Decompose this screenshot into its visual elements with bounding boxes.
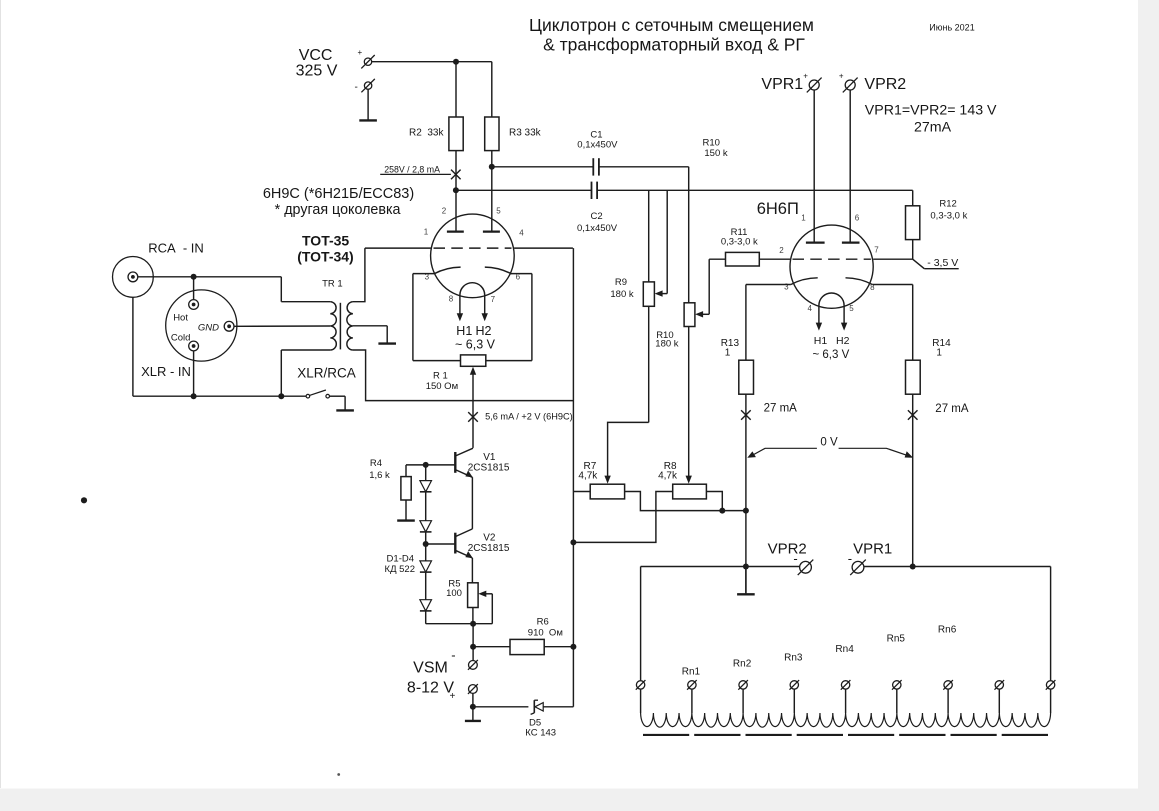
- svg-text:R3 33k: R3 33k: [509, 127, 542, 138]
- svg-text:Rn5: Rn5: [887, 634, 906, 645]
- diode D1: [420, 481, 432, 492]
- svg-text:R2 33k: R2 33k: [409, 127, 444, 138]
- svg-text:Rn6: Rn6: [938, 625, 957, 636]
- svg-text:(TOT-34): (TOT-34): [297, 248, 354, 264]
- svg-text:4,7k: 4,7k: [658, 471, 678, 482]
- svg-text:0,3-3,0 k: 0,3-3,0 k: [721, 237, 758, 248]
- wire GND pin to transformer tap: [234, 325, 330, 327]
- terminal tap 5: [892, 680, 902, 690]
- svg-text:Rn3: Rn3: [784, 653, 803, 664]
- svg-text:27mA: 27mA: [914, 119, 952, 135]
- RCA connector: [112, 257, 153, 298]
- resistor R4: [401, 477, 411, 500]
- svg-text:H2: H2: [836, 335, 850, 347]
- R1 wiper arrow from V1 collector: [470, 367, 476, 448]
- svg-text:TR 1: TR 1: [322, 279, 343, 290]
- svg-text:1,6 k: 1,6 k: [369, 470, 390, 481]
- wire R7 right to R13 node: [625, 492, 746, 511]
- transistor V1 2CS1815: [426, 448, 473, 477]
- svg-text:КД 522: КД 522: [385, 564, 415, 575]
- wire R8 left loop: [573, 492, 672, 543]
- measure point X 258V: [451, 170, 461, 180]
- wire grid right to R12 node: [873, 258, 913, 260]
- wire grid left to transformer: [365, 247, 431, 249]
- svg-text:Cold: Cold: [171, 332, 191, 343]
- potentiometer R9 180k: [643, 282, 654, 306]
- U1 heater hump: [460, 283, 485, 297]
- wire hot pin up: [193, 277, 195, 300]
- svg-text:2CS1815: 2CS1815: [468, 543, 510, 554]
- wire R8 right down: [706, 492, 722, 511]
- R10 wiper arrow: [695, 259, 709, 317]
- terminal tap 3: [789, 680, 799, 690]
- junction R13/bus: [743, 508, 749, 514]
- R9 wiper arrow: [655, 190, 668, 296]
- wire to R6: [473, 646, 510, 648]
- potentiometer R7: [590, 484, 624, 499]
- terminal VCC-: [361, 79, 374, 92]
- wire R7 left: [573, 491, 590, 493]
- svg-text:& трансформаторный вход & РГ: & трансформаторный вход & РГ: [543, 35, 805, 55]
- svg-text:1: 1: [424, 228, 429, 237]
- wire primary bottom terminal: [281, 349, 330, 351]
- svg-text:TOT-35: TOT-35: [302, 233, 349, 249]
- wire R6 right: [544, 646, 573, 648]
- svg-text:VSM: VSM: [413, 659, 448, 676]
- junction R6/vertical: [570, 644, 576, 650]
- svg-text:8: 8: [449, 295, 454, 304]
- terminal tap 2: [738, 680, 748, 690]
- transistor V2 2CS1815: [426, 529, 473, 558]
- R7 wiper arrow: [604, 476, 610, 484]
- measure point X R13: [741, 410, 751, 420]
- svg-text:Hot: Hot: [173, 312, 188, 323]
- wire R2 to anode pin2: [455, 151, 457, 232]
- transformer TR1 core: [339, 303, 341, 350]
- svg-text:Июнь 2021: Июнь 2021: [929, 23, 974, 33]
- R5 wiper arrow: [478, 591, 492, 624]
- svg-text:XLR/RCA: XLR/RCA: [297, 366, 356, 381]
- wire R14 bottom to VPR1 rail: [912, 394, 914, 566]
- terminal tap 4: [841, 680, 851, 690]
- ground secondary center: [378, 326, 396, 344]
- 0V arrow left: [747, 448, 817, 458]
- wire secondary bottom to cathode node: [353, 350, 574, 401]
- svg-text:R9: R9: [615, 277, 627, 288]
- svg-text:5: 5: [849, 304, 854, 313]
- svg-text:100: 100: [446, 588, 462, 599]
- wire tap 2 to coil: [742, 689, 744, 713]
- svg-text:- 3,5 V: - 3,5 V: [927, 257, 958, 269]
- XLR pin Hot: [189, 300, 199, 310]
- svg-text:XLR - IN: XLR - IN: [141, 364, 191, 379]
- measure point X 5.6mA: [468, 412, 478, 422]
- XLR pin Cold: [189, 341, 199, 351]
- wire R4 top link: [406, 464, 426, 466]
- svg-text:-: -: [848, 551, 852, 566]
- svg-text:RCA - IN: RCA - IN: [148, 240, 204, 255]
- ground at VCC-: [359, 89, 377, 120]
- U1 anode plates: [447, 231, 464, 233]
- wire VPR1 rail: [864, 566, 1051, 568]
- svg-text:Rn2: Rn2: [733, 659, 752, 670]
- terminal VCC+: [361, 55, 374, 68]
- svg-text:258V / 2,8 mA: 258V / 2,8 mA: [384, 164, 440, 174]
- U2 heater hump: [819, 293, 844, 308]
- svg-text:7: 7: [491, 295, 496, 304]
- svg-text:GND: GND: [198, 322, 219, 333]
- wire RCA shield down: [132, 297, 134, 396]
- wire R13 bottom: [745, 394, 747, 510]
- junction RCA/XLR hot: [191, 274, 197, 280]
- svg-text:5,6 mA / +2 V (6Н9С): 5,6 mA / +2 V (6Н9С): [485, 412, 573, 422]
- 0V arrow right: [839, 448, 914, 458]
- svg-text:180 k: 180 k: [655, 338, 678, 349]
- wire C2 line down to R12: [912, 190, 914, 206]
- wire primary bottom to bus: [280, 350, 282, 396]
- wire bottom bus V-section: [426, 623, 493, 625]
- svg-text:325 V: 325 V: [296, 63, 338, 80]
- junction V1 base: [423, 462, 429, 468]
- svg-text:Rn1: Rn1: [682, 667, 701, 678]
- resistor R6: [510, 639, 544, 654]
- terminal tap 8: [1046, 680, 1056, 690]
- U2 heater leads with arrows (pins 4,5): [816, 308, 848, 331]
- terminal VPR1: [807, 78, 822, 93]
- tube U1 6N9S envelope: [431, 214, 515, 298]
- svg-text:0,1x450V: 0,1x450V: [577, 223, 618, 234]
- resistor R12: [906, 206, 920, 240]
- terminal tap 0: [636, 680, 646, 690]
- resistor R1: [461, 355, 486, 366]
- wire V1 emitter to V2 collector: [471, 477, 473, 529]
- period mark bottom: [337, 773, 340, 776]
- svg-text:+: +: [358, 48, 363, 57]
- attenuator core bars: [643, 734, 689, 736]
- svg-text:5: 5: [496, 207, 501, 216]
- junction VCC/R2: [453, 59, 459, 65]
- wire diode chain: [425, 465, 427, 624]
- U2 grid (dashed): [793, 258, 871, 260]
- wire primary top terminal: [281, 301, 330, 303]
- svg-text:6: 6: [855, 214, 860, 223]
- svg-text:180 k: 180 k: [610, 289, 633, 300]
- wire tap 6 to coil: [947, 689, 949, 713]
- U1 cathode arcs: [434, 267, 461, 274]
- svg-text:4,7k: 4,7k: [578, 471, 598, 482]
- svg-text:R6: R6: [537, 617, 549, 628]
- svg-text:6Н9С (*6Н21Б/ECC83): 6Н9С (*6Н21Б/ECC83): [263, 186, 414, 202]
- wire tap8 to coil: [1050, 689, 1052, 713]
- capacitor C1: [492, 158, 689, 175]
- svg-text:27 mA: 27 mA: [935, 403, 969, 415]
- junction V2 base: [423, 541, 429, 547]
- wire tap0 to coil: [640, 689, 642, 713]
- svg-text:0,3-3,0 k: 0,3-3,0 k: [930, 210, 967, 221]
- measure point X R14: [908, 410, 918, 420]
- wire R10 bottom to R8 wiper: [688, 327, 690, 478]
- wire grid right: [514, 247, 573, 249]
- wire VCC to R3: [491, 62, 493, 117]
- svg-text:2: 2: [442, 207, 447, 216]
- wire VPR1 to anode pin1: [813, 90, 815, 243]
- wire cold pin down: [193, 351, 195, 396]
- wire RCA to primary top: [280, 277, 282, 302]
- svg-text:R10: R10: [703, 137, 720, 148]
- wire R3 to anode pin5: [491, 151, 493, 232]
- ground at VSM+: [465, 707, 481, 721]
- svg-text:-: -: [793, 551, 797, 566]
- junction anode/C2: [453, 187, 459, 193]
- transformer TR1 primary winding: [330, 302, 336, 350]
- wire secondary center tap: [353, 325, 387, 327]
- U2 anode plates: [806, 242, 825, 244]
- wire R4 top: [405, 465, 407, 477]
- heater supply box (U1): [413, 274, 532, 361]
- U2 cathode arcs: [791, 278, 818, 285]
- underline 258V: [380, 173, 451, 175]
- svg-text:VPR2: VPR2: [768, 540, 807, 557]
- wire R5 bottom: [472, 608, 474, 624]
- svg-text:1: 1: [725, 347, 731, 358]
- wire C1 out down (R10 150k line): [688, 167, 690, 303]
- svg-text:Циклотрон с сеточным смещением: Циклотрон с сеточным смещением: [529, 15, 814, 35]
- svg-text:4: 4: [807, 304, 812, 313]
- wire attenuator left end down: [640, 567, 642, 681]
- svg-text:VPR1=VPR2= 143 V: VPR1=VPR2= 143 V: [865, 102, 997, 118]
- svg-text:910 Ом: 910 Ом: [528, 627, 563, 638]
- bullet mark left margin: [81, 497, 87, 503]
- resistor R11: [726, 252, 760, 266]
- XLR connector body: [166, 290, 237, 361]
- wire V2 emitter to R5: [471, 558, 473, 583]
- wire secondary top to grid: [353, 248, 365, 302]
- svg-text:4: 4: [519, 229, 524, 238]
- svg-text:2: 2: [779, 246, 784, 255]
- terminal tap 1: [687, 680, 697, 690]
- resistor R2: [449, 117, 463, 151]
- capacitor C2: [456, 182, 913, 199]
- svg-text:R 1: R 1: [433, 371, 448, 382]
- junction bus/cold: [191, 393, 197, 399]
- resistor R3: [485, 117, 499, 151]
- wire R12 bottom to grid node: [912, 240, 914, 260]
- svg-text:VPR1: VPR1: [853, 540, 892, 557]
- terminal VPR1 bottom: [850, 560, 866, 576]
- resistor R14: [906, 360, 921, 394]
- wire tap 1 to coil: [691, 689, 693, 713]
- svg-text:КС 143: КС 143: [525, 727, 556, 738]
- wire tap 5 to coil: [896, 689, 898, 713]
- svg-text:2CS1815: 2CS1815: [468, 462, 510, 473]
- svg-text:+: +: [450, 691, 456, 702]
- wire pin8 to R14: [872, 284, 912, 286]
- ground at VPR rail: [737, 567, 755, 595]
- svg-text:R4: R4: [370, 458, 382, 469]
- wire C2 line to R9: [648, 190, 650, 282]
- svg-text:+: +: [803, 72, 808, 81]
- diode D2: [420, 521, 432, 532]
- svg-text:H2: H2: [476, 324, 492, 338]
- svg-text:0 V: 0 V: [820, 436, 838, 448]
- R8 wiper arrow: [686, 476, 692, 484]
- transformer TR1 secondary winding: [347, 302, 353, 350]
- wire RCA hot: [138, 276, 281, 278]
- junction R8/bus: [719, 508, 725, 514]
- terminal VSM-: [468, 660, 478, 670]
- svg-text:VPR2: VPR2: [864, 76, 906, 93]
- svg-text:-: -: [451, 647, 455, 662]
- wire D5 cathode to vertical: [543, 706, 573, 708]
- wire cathode node vertical: [572, 248, 574, 542]
- svg-text:8-12 V: 8-12 V: [407, 679, 454, 696]
- svg-text:0,1x450V: 0,1x450V: [577, 140, 618, 151]
- wire to D5 anode: [473, 706, 529, 708]
- svg-text:V2: V2: [483, 533, 496, 544]
- ground at R4: [397, 500, 415, 521]
- wire vertical to D5 corner: [572, 542, 574, 706]
- ground bus wire: [133, 395, 307, 397]
- terminal tap 6: [943, 680, 953, 690]
- junction R5/bus: [470, 621, 476, 627]
- svg-text:1: 1: [936, 347, 942, 358]
- wire R9 bottom down: [648, 306, 650, 422]
- junction anode/C1: [489, 164, 495, 170]
- junction rail/R14: [910, 564, 916, 570]
- U1 heater leads with arrows (pins 8,7): [457, 297, 488, 322]
- svg-text:C2: C2: [591, 211, 603, 222]
- svg-text:Rn4: Rn4: [835, 644, 854, 655]
- ground at switch: [336, 396, 354, 410]
- potentiometer R5: [468, 583, 479, 608]
- wire VPR2 to anode pin6: [849, 90, 851, 243]
- svg-text:V1: V1: [483, 452, 496, 463]
- svg-text:+: +: [839, 72, 844, 81]
- junction R8 loop/vertical: [570, 539, 576, 545]
- potentiometer R8: [673, 484, 707, 499]
- terminal VSM+: [468, 684, 478, 694]
- junction VSM-/R6: [470, 644, 476, 650]
- junction rail/R13 line: [743, 564, 749, 570]
- svg-text:7: 7: [874, 246, 879, 255]
- wire R11 to grid pin2: [759, 258, 790, 260]
- diode D3: [420, 561, 432, 572]
- wire R13 to ground: [745, 511, 747, 593]
- U1 grid (dashed): [434, 247, 512, 249]
- svg-text:VPR1: VPR1: [761, 76, 803, 93]
- wire VCC to R2: [455, 62, 457, 117]
- svg-text:150 k: 150 k: [704, 148, 727, 159]
- svg-text:~ 6,3 V: ~ 6,3 V: [813, 349, 850, 361]
- -3,5V tail: [913, 259, 959, 269]
- wire R9 to R7 wiper: [608, 422, 649, 477]
- wire R14 top: [912, 285, 914, 361]
- wire tap 4 to coil: [845, 689, 847, 713]
- wire R13 top: [745, 285, 747, 361]
- wire tap 7 to coil: [998, 689, 1000, 713]
- wire to R6 node: [472, 624, 474, 647]
- wire R10 wiper to R11: [709, 258, 725, 260]
- svg-text:R12: R12: [939, 199, 956, 210]
- svg-text:H1: H1: [456, 324, 472, 338]
- junction VSM+/D5: [470, 704, 476, 710]
- tube U2 6N6P envelope: [790, 225, 873, 308]
- wire tap 3 to coil: [793, 689, 795, 713]
- resistor R13: [739, 360, 754, 394]
- diode D4: [420, 600, 432, 611]
- svg-text:VCC: VCC: [299, 47, 333, 64]
- zener diode D5 KC143: [531, 700, 544, 714]
- svg-text:1: 1: [801, 214, 806, 223]
- svg-text:6Н6П: 6Н6П: [757, 200, 799, 218]
- terminal VPR2 bottom: [798, 560, 814, 576]
- wire pin3 to R13: [746, 284, 791, 286]
- svg-text:27 mA: 27 mA: [764, 403, 798, 415]
- wire attenuator right end down: [1050, 567, 1052, 681]
- attenuator winding Rn: [641, 713, 1051, 727]
- terminal VPR2: [843, 78, 858, 93]
- XLR pin GND: [224, 321, 234, 331]
- wire VCC rail: [372, 61, 492, 63]
- switch XLR/RCA: [306, 390, 345, 398]
- svg-text:~ 6,3 V: ~ 6,3 V: [455, 337, 496, 351]
- wire VPR2 rail: [641, 566, 800, 568]
- svg-text:* другая цоколевка: * другая цоколевка: [275, 202, 401, 218]
- svg-text:150 Ом: 150 Ом: [426, 381, 458, 392]
- potentiometer R10 180k: [684, 303, 695, 327]
- wire VSM+ down: [472, 693, 474, 706]
- svg-text:H1: H1: [814, 335, 828, 347]
- junction bus/primary: [278, 393, 284, 399]
- terminal tap 7: [994, 680, 1004, 690]
- wire to VSM- terminal: [472, 647, 474, 661]
- svg-text:-: -: [355, 82, 358, 93]
